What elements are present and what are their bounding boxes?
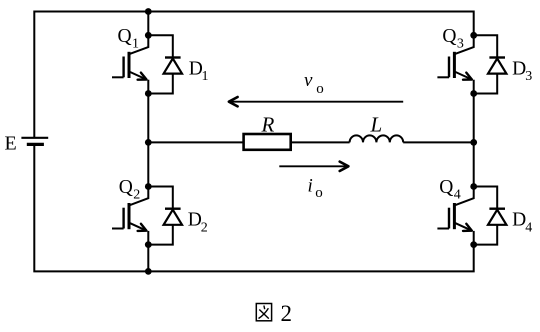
label E [5, 133, 17, 155]
label vo [304, 70, 324, 97]
label R [261, 112, 275, 136]
wire left leg middle segment [147, 94, 149, 187]
svg-text:o: o [315, 185, 323, 201]
svg-text:Q: Q [118, 26, 132, 47]
svg-text:E: E [5, 133, 17, 155]
label Q3 [442, 26, 464, 52]
label D1 [189, 58, 209, 84]
svg-text:1: 1 [202, 69, 209, 84]
svg-text:3: 3 [457, 37, 464, 52]
diode D4 [488, 209, 506, 225]
wire right leg middle segment [473, 94, 475, 187]
wire R to L [291, 141, 350, 143]
node Q2 emitter [145, 241, 152, 248]
node Q3 collector [470, 32, 477, 39]
transistor Q1 [112, 35, 148, 93]
svg-text:o: o [316, 81, 324, 97]
label D4 [512, 210, 532, 236]
wire load left [148, 141, 243, 143]
label Q2 [119, 177, 141, 203]
label D3 [512, 59, 532, 85]
wire D3 branch [474, 35, 498, 93]
svg-text:L: L [370, 112, 383, 136]
diode D1 [164, 58, 182, 74]
diode D3 [488, 58, 506, 74]
node bottom rail junction [145, 268, 152, 275]
svg-text:4: 4 [454, 188, 461, 203]
caption 図 2 [256, 301, 292, 326]
wire top rail and upper sides [34, 12, 473, 138]
node Q3 emitter [470, 90, 477, 97]
resistor R [244, 134, 291, 150]
wire L to right node [403, 141, 474, 143]
battery E [21, 138, 48, 145]
arrow vo (points left) [229, 97, 403, 106]
svg-text:3: 3 [525, 69, 532, 84]
wire bottom rail and lower sides [34, 144, 473, 271]
node Q4 emitter [470, 241, 477, 248]
transistor Q4 [437, 187, 473, 245]
node Q4 collector [470, 183, 477, 190]
svg-text:v: v [304, 70, 313, 91]
label L [370, 112, 383, 136]
node Q2 collector [145, 183, 152, 190]
diode D2 [164, 209, 182, 225]
svg-text:Q: Q [439, 177, 453, 198]
node left load junction [145, 139, 152, 146]
svg-text:2: 2 [201, 220, 208, 235]
wire D2 branch [148, 187, 173, 245]
label Q1 [118, 26, 140, 52]
wire left leg top segment [147, 12, 149, 36]
svg-text:4: 4 [525, 220, 532, 235]
svg-text:D: D [512, 59, 526, 80]
node top rail junction [145, 8, 152, 15]
svg-text:2: 2 [133, 188, 140, 203]
node Q1 emitter [145, 90, 152, 97]
svg-text:Q: Q [119, 177, 133, 198]
svg-text:Q: Q [442, 26, 456, 47]
svg-text:R: R [261, 112, 275, 136]
svg-text:D: D [512, 210, 526, 231]
label io [308, 176, 323, 201]
inductor L [350, 135, 404, 142]
label D2 [188, 210, 208, 236]
svg-text:i: i [308, 176, 313, 197]
wire left leg bottom segment [147, 245, 149, 272]
transistor Q2 [112, 187, 148, 245]
wire D1 branch [148, 35, 173, 93]
transistor Q3 [437, 35, 473, 93]
arrow io (points right) [279, 162, 348, 171]
node Q1 collector [145, 32, 152, 39]
wire D4 branch [474, 187, 498, 245]
svg-text:1: 1 [132, 37, 139, 52]
svg-text:2: 2 [281, 301, 293, 326]
label Q4 [439, 177, 461, 203]
node right load junction [470, 139, 477, 146]
svg-text:D: D [188, 210, 202, 231]
